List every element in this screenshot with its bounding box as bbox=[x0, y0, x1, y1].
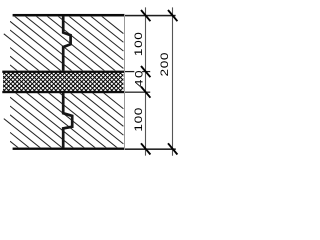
middle layer bottom boundary line bbox=[2, 91, 124, 93]
dimension line (100/40/100 chain) bbox=[145, 7, 147, 155]
dimension tick at (146,149) bbox=[141, 143, 150, 154]
top slab stepped joint bbox=[63, 16, 70, 70]
svg-text:40: 40 bbox=[133, 69, 145, 87]
bottom slab bottom edge (thick) bbox=[13, 148, 125, 150]
svg-text:200: 200 bbox=[158, 52, 170, 77]
white knockout behind 40 label bbox=[134, 69, 142, 80]
dimension tick at (146,72) bbox=[141, 66, 150, 77]
bottom slab protruding hatch tip (break mark) bbox=[4, 119, 11, 124]
middle layer top extension line bbox=[125, 71, 151, 72]
middle layer bottom extension line bbox=[125, 92, 151, 93]
dimension tick at (172,149) bbox=[168, 143, 177, 154]
bottom slab hatch bbox=[10, 18, 123, 240]
dimension line (200 overall) bbox=[172, 7, 174, 155]
bottom slab stepped joint bbox=[63, 93, 72, 148]
middle joint layer crosshatch fill bbox=[3, 73, 123, 91]
right break edge (light line) bbox=[124, 14, 126, 150]
svg-text:100: 100 bbox=[132, 32, 144, 57]
top slab protruding hatch tip (break mark) bbox=[4, 34, 11, 39]
top slab hatch (45-ish diagonal lines) bbox=[10, 0, 123, 156]
svg-text:100: 100 bbox=[132, 107, 144, 132]
dimension tick at (146,16) bbox=[141, 10, 150, 21]
dimension tick at (146,92) bbox=[141, 87, 150, 98]
top slab top edge (thick) bbox=[13, 14, 125, 17]
middle layer top boundary line bbox=[2, 71, 124, 73]
top extension line to dimension lines bbox=[125, 15, 176, 17]
bottom extension line to dimension lines bbox=[125, 148, 176, 150]
dimension tick at (172,16) bbox=[168, 10, 177, 21]
